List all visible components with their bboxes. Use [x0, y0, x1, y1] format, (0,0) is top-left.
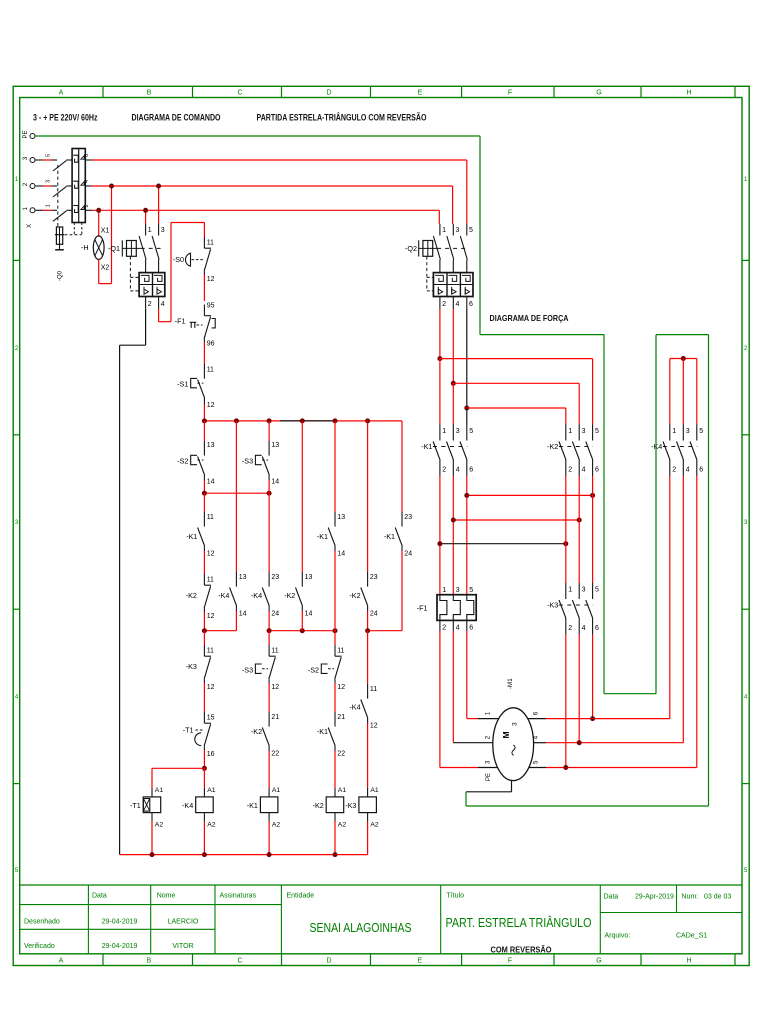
svg-text:3: 3: [161, 227, 165, 234]
svg-text:6: 6: [469, 625, 473, 632]
svg-text:-K2: -K2: [547, 442, 558, 451]
svg-text:-F1: -F1: [175, 317, 186, 326]
svg-text:PE: PE: [486, 773, 492, 781]
svg-text:12: 12: [207, 684, 215, 691]
svg-text:1: 1: [568, 587, 572, 594]
svg-text:Num:: Num:: [682, 894, 699, 901]
svg-text:-K4: -K4: [349, 703, 360, 712]
svg-text:4: 4: [582, 625, 586, 632]
svg-text:A1: A1: [155, 787, 164, 794]
svg-text:4: 4: [456, 301, 460, 308]
svg-text:14: 14: [207, 479, 215, 486]
svg-text:B: B: [147, 957, 152, 964]
svg-text:X2: X2: [101, 265, 110, 272]
svg-text:PE: PE: [23, 130, 29, 138]
svg-text:-K4: -K4: [651, 442, 662, 451]
svg-text:11: 11: [207, 514, 214, 521]
svg-text:-S1: -S1: [177, 380, 188, 389]
svg-text:A1: A1: [207, 787, 216, 794]
svg-text:-K1: -K1: [421, 442, 432, 451]
svg-text:-K4: -K4: [182, 801, 193, 810]
svg-text:-K3: -K3: [345, 801, 356, 810]
svg-text:11: 11: [370, 686, 377, 693]
svg-text:DIAGRAMA DE FORÇA: DIAGRAMA DE FORÇA: [490, 313, 569, 323]
svg-text:6: 6: [595, 625, 599, 632]
svg-text:-F1: -F1: [417, 604, 428, 613]
svg-text:-S3: -S3: [242, 457, 253, 466]
svg-text:A1: A1: [272, 787, 281, 794]
svg-text:-Q1: -Q1: [108, 244, 120, 253]
svg-text:A2: A2: [338, 821, 347, 828]
svg-text:-K1: -K1: [317, 727, 328, 736]
svg-text:-K3: -K3: [186, 662, 197, 671]
svg-text:Verificado: Verificado: [24, 943, 55, 950]
svg-text:-K2: -K2: [313, 801, 324, 810]
svg-text:5: 5: [469, 428, 473, 435]
svg-text:Nome: Nome: [157, 893, 176, 900]
svg-text:29-Apr-2019: 29-Apr-2019: [635, 894, 674, 901]
svg-text:COM REVERSÃO: COM REVERSÃO: [491, 945, 552, 955]
svg-text:21: 21: [337, 714, 345, 721]
svg-text:5: 5: [595, 428, 599, 435]
svg-text:G: G: [596, 90, 601, 97]
svg-text:F: F: [508, 957, 512, 964]
svg-text:3: 3: [456, 428, 460, 435]
svg-text:A: A: [59, 90, 64, 97]
svg-text:-S0: -S0: [173, 255, 184, 264]
svg-text:E: E: [418, 957, 423, 964]
svg-text:H: H: [686, 957, 691, 964]
svg-text:-K1: -K1: [186, 532, 197, 541]
svg-text:6: 6: [595, 467, 599, 474]
svg-text:4: 4: [456, 467, 460, 474]
svg-text:6: 6: [469, 467, 473, 474]
svg-text:2: 2: [442, 467, 446, 474]
svg-text:14: 14: [239, 611, 247, 618]
svg-text:22: 22: [337, 751, 345, 758]
svg-text:3: 3: [582, 428, 586, 435]
svg-text:3 - + PE 220V/ 60Hz: 3 - + PE 220V/ 60Hz: [33, 113, 98, 123]
svg-text:A2: A2: [272, 821, 281, 828]
svg-text:1: 1: [672, 428, 676, 435]
svg-text:A1: A1: [338, 787, 347, 794]
svg-text:22: 22: [271, 751, 279, 758]
svg-text:2: 2: [568, 467, 572, 474]
svg-text:2: 2: [672, 467, 676, 474]
svg-text:A: A: [59, 957, 64, 964]
svg-text:11: 11: [207, 576, 214, 583]
svg-text:A1: A1: [370, 787, 379, 794]
svg-text:4: 4: [161, 301, 165, 308]
svg-text:16: 16: [207, 751, 215, 758]
svg-text:1: 1: [148, 227, 152, 234]
svg-text:-K2: -K2: [251, 727, 262, 736]
svg-text:PART. ESTRELA TRIÂNGULO: PART. ESTRELA TRIÂNGULO: [446, 915, 592, 930]
svg-text:2: 2: [442, 625, 446, 632]
svg-text:-S2: -S2: [177, 457, 188, 466]
svg-text:03 de 03: 03 de 03: [704, 894, 731, 901]
svg-text:3: 3: [45, 180, 51, 183]
svg-text:2: 2: [148, 301, 152, 308]
svg-text:A2: A2: [155, 821, 164, 828]
svg-text:X1: X1: [101, 227, 110, 234]
svg-text:M: M: [501, 731, 511, 738]
svg-text:24: 24: [271, 611, 279, 618]
svg-text:3: 3: [686, 428, 690, 435]
svg-text:23: 23: [271, 574, 279, 581]
svg-text:1: 1: [442, 428, 446, 435]
svg-text:DIAGRAMA DE COMANDO: DIAGRAMA DE COMANDO: [132, 113, 221, 123]
svg-text:13: 13: [271, 442, 279, 449]
svg-text:SENAI ALAGOINHAS: SENAI ALAGOINHAS: [310, 921, 412, 935]
svg-text:13: 13: [207, 442, 215, 449]
svg-text:B: B: [147, 90, 152, 97]
svg-text:Data: Data: [92, 893, 107, 900]
svg-text:-K4: -K4: [251, 591, 262, 600]
svg-text:-K2: -K2: [186, 591, 197, 600]
svg-text:12: 12: [370, 723, 378, 730]
svg-text:23: 23: [404, 514, 412, 521]
svg-text:12: 12: [207, 276, 215, 283]
svg-text:5: 5: [595, 587, 599, 594]
svg-text:LAERCIO: LAERCIO: [168, 919, 199, 926]
svg-text:-T1: -T1: [183, 726, 194, 735]
svg-text:A2: A2: [207, 821, 216, 828]
svg-text:X: X: [27, 224, 33, 228]
svg-text:Data: Data: [604, 894, 619, 901]
svg-text:-M1: -M1: [507, 678, 514, 689]
svg-text:6: 6: [699, 467, 703, 474]
svg-text:E: E: [418, 90, 423, 97]
svg-text:3: 3: [512, 722, 519, 726]
svg-text:Entidade: Entidade: [287, 893, 315, 900]
svg-text:F: F: [508, 90, 512, 97]
svg-text:95: 95: [207, 302, 215, 309]
svg-text:13: 13: [337, 514, 345, 521]
svg-text:-K2: -K2: [284, 591, 295, 600]
svg-text:24: 24: [404, 551, 412, 558]
svg-text:5: 5: [45, 154, 51, 157]
svg-text:14: 14: [337, 551, 345, 558]
svg-text:96: 96: [207, 340, 215, 347]
svg-text:4: 4: [582, 467, 586, 474]
svg-text:21: 21: [271, 714, 279, 721]
svg-text:CADe_S1: CADe_S1: [676, 933, 707, 940]
svg-text:H: H: [686, 90, 691, 97]
svg-text:-K3: -K3: [547, 601, 558, 610]
svg-text:5: 5: [469, 227, 473, 234]
svg-text:Desenhado: Desenhado: [24, 919, 60, 926]
svg-text:-K1: -K1: [384, 532, 395, 541]
svg-text:1: 1: [45, 204, 51, 207]
svg-text:11: 11: [271, 647, 278, 654]
svg-text:13: 13: [239, 574, 247, 581]
svg-text:13: 13: [305, 574, 313, 581]
svg-text:-K2: -K2: [349, 591, 360, 600]
svg-text:-K1: -K1: [317, 532, 328, 541]
svg-text:G: G: [596, 957, 601, 964]
svg-text:1: 1: [442, 227, 446, 234]
svg-text:-Q0: -Q0: [58, 270, 64, 281]
svg-text:2: 2: [568, 625, 572, 632]
svg-text:12: 12: [207, 613, 215, 620]
svg-text:11: 11: [207, 647, 214, 654]
svg-text:3: 3: [456, 587, 460, 594]
svg-text:24: 24: [370, 611, 378, 618]
svg-text:5: 5: [469, 587, 473, 594]
svg-text:D: D: [326, 957, 331, 964]
svg-text:-K4: -K4: [218, 591, 229, 600]
svg-text:11: 11: [337, 647, 344, 654]
svg-text:-K1: -K1: [247, 801, 258, 810]
svg-text:C: C: [237, 957, 242, 964]
svg-text:12: 12: [337, 684, 345, 691]
svg-text:-Q2: -Q2: [405, 244, 417, 253]
svg-text:A2: A2: [370, 821, 379, 828]
svg-text:4: 4: [686, 467, 690, 474]
svg-text:29-04-2019: 29-04-2019: [102, 919, 138, 926]
svg-text:-H: -H: [81, 243, 89, 252]
svg-text:4: 4: [456, 625, 460, 632]
svg-text:2: 2: [442, 301, 446, 308]
svg-text:Título: Título: [447, 893, 465, 900]
svg-text:1: 1: [568, 428, 572, 435]
svg-text:-T1: -T1: [130, 801, 141, 810]
svg-text:-S3: -S3: [242, 666, 253, 675]
svg-text:12: 12: [271, 684, 279, 691]
svg-text:29-04-2019: 29-04-2019: [102, 943, 138, 950]
svg-text:14: 14: [305, 611, 313, 618]
svg-text:12: 12: [207, 551, 215, 558]
svg-text:12: 12: [207, 402, 215, 409]
svg-text:1: 1: [442, 587, 446, 594]
svg-text:3: 3: [456, 227, 460, 234]
svg-text:11: 11: [207, 367, 214, 374]
svg-text:D: D: [326, 90, 331, 97]
svg-text:PARTIDA ESTRELA-TRIÂNGULO COM: PARTIDA ESTRELA-TRIÂNGULO COM REVERSÃO: [257, 112, 427, 123]
svg-text:14: 14: [271, 479, 279, 486]
svg-text:Arquivo:: Arquivo:: [605, 933, 631, 940]
svg-text:6: 6: [469, 301, 473, 308]
svg-text:23: 23: [370, 574, 378, 581]
svg-text:15: 15: [207, 714, 215, 721]
svg-text:3: 3: [582, 587, 586, 594]
svg-text:VITOR: VITOR: [172, 943, 193, 950]
svg-text:5: 5: [699, 428, 703, 435]
svg-text:Assinaturas: Assinaturas: [220, 893, 257, 900]
svg-text:-S2: -S2: [308, 666, 319, 675]
svg-text:C: C: [237, 90, 242, 97]
svg-text:11: 11: [207, 239, 214, 246]
